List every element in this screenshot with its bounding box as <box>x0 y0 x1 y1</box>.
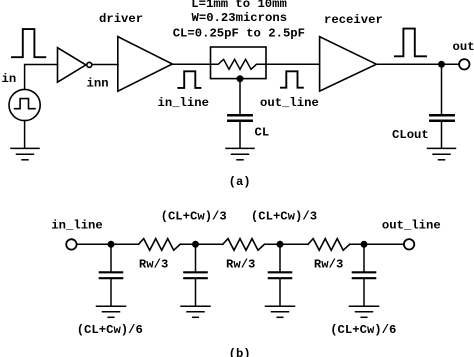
ground (cap 3) <box>266 306 295 317</box>
resistor (wire resistance inside box) <box>211 59 267 69</box>
svg-text:Rw/3: Rw/3 <box>314 257 343 271</box>
svg-text:in_line: in_line <box>158 96 209 110</box>
svg-text:inn: inn <box>87 77 109 91</box>
ground (cap 1) <box>97 306 126 317</box>
junction node 2 <box>192 241 199 248</box>
junction (out node) <box>438 61 445 68</box>
driver buffer U2 <box>118 37 173 92</box>
junction node 3 <box>277 241 284 248</box>
input pulse waveform icon <box>12 29 45 57</box>
junction (box bottom) <box>237 75 244 82</box>
inverter U1 <box>58 48 86 82</box>
resistor Rw/3 #2 <box>223 239 265 251</box>
svg-text:(a): (a) <box>229 175 251 189</box>
capacitor (CL+Cw)/6 left <box>110 244 112 271</box>
output pulse waveform icon <box>395 29 426 57</box>
value label L/W/CL <box>173 0 305 40</box>
wire node2-node3 <box>265 243 309 245</box>
svg-text:out: out <box>453 40 474 54</box>
pulse source V1 <box>9 89 40 120</box>
wire box to receiver <box>266 63 320 65</box>
svg-text:Rw/3: Rw/3 <box>139 257 168 271</box>
svg-text:driver: driver <box>99 12 143 26</box>
svg-text:receiver: receiver <box>324 13 383 27</box>
waveform icon at out_line <box>281 71 303 87</box>
capacitor (CL+Cw)/3 #2 <box>279 244 281 271</box>
resistor Rw/3 #1 <box>139 239 181 251</box>
junction node 4 <box>361 241 368 248</box>
svg-text:out_line: out_line <box>260 96 319 110</box>
svg-text:CL: CL <box>255 126 270 140</box>
junction node 1 <box>108 241 115 248</box>
ground (CLout) <box>428 148 456 159</box>
wire node1-node2 <box>180 243 223 245</box>
capacitor (CL+Cw)/3 #1 <box>195 244 197 271</box>
wire inverter to driver <box>93 64 118 66</box>
svg-text:(CL+Cw)/3: (CL+Cw)/3 <box>161 210 227 224</box>
wire out to CLout <box>441 64 443 113</box>
svg-text:L=1mm to 10mm: L=1mm to 10mm <box>191 0 287 11</box>
wire receiver to out <box>377 63 459 65</box>
svg-text:CL=0.25pF to 2.5pF: CL=0.25pF to 2.5pF <box>173 27 305 41</box>
ground (cap 4) <box>350 306 379 317</box>
resistor Rw/3 #3 <box>308 239 350 251</box>
capacitor CL <box>228 115 251 121</box>
svg-text:(b): (b) <box>229 347 251 357</box>
svg-text:in: in <box>2 72 17 86</box>
ground (cap 2) <box>181 306 210 317</box>
receiver buffer U3 <box>320 37 377 92</box>
svg-text:Rw/3: Rw/3 <box>226 257 255 271</box>
svg-text:W=0.23microns: W=0.23microns <box>192 11 288 25</box>
capacitor CLout <box>430 115 453 121</box>
waveform icon at in_line <box>178 71 200 88</box>
ground (CL) <box>226 148 254 159</box>
wire CL to ground <box>239 122 241 148</box>
wire node3 to out_line terminal <box>350 243 404 245</box>
wire CLout to ground <box>441 122 443 148</box>
svg-text:CLout: CLout <box>392 128 429 142</box>
svg-text:in_line: in_line <box>51 219 102 233</box>
wire in_line terminal to node 1 <box>78 243 139 245</box>
transmission line model box <box>211 47 267 79</box>
ground (source) <box>11 148 39 159</box>
svg-text:(CL+Cw)/6: (CL+Cw)/6 <box>330 323 396 337</box>
wire junction to CL <box>239 79 241 114</box>
wire from source to inverter input <box>25 65 58 90</box>
capacitor (CL+Cw)/6 right <box>363 244 365 271</box>
svg-text:(CL+Cw)/6: (CL+Cw)/6 <box>77 323 143 337</box>
wire from source to ground <box>24 121 26 148</box>
svg-text:out_line: out_line <box>382 219 441 233</box>
svg-text:(CL+Cw)/3: (CL+Cw)/3 <box>251 210 317 224</box>
wire driver to line model box <box>172 63 210 65</box>
